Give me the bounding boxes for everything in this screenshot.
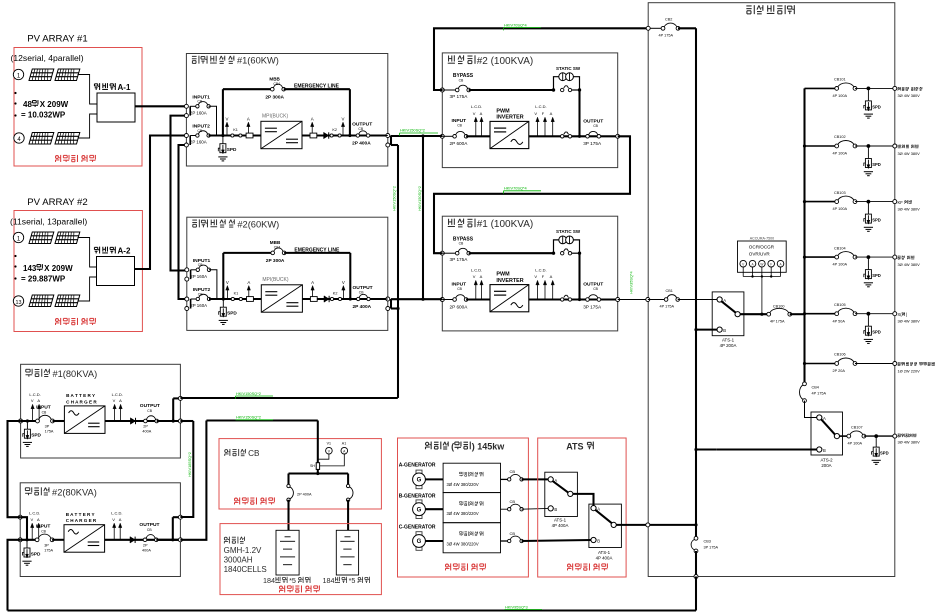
DC link wire to PWM inverter [466, 135, 490, 137]
static switch output drop to AC rail [578, 90, 580, 136]
svg-text:#2 (100KVA): #2 (100KVA) [477, 56, 534, 67]
battery branch bus [289, 472, 349, 474]
svg-text:2P 400A: 2P 400A [353, 304, 372, 310]
svg-text:(12serial, 4parallel): (12serial, 4parallel) [11, 53, 84, 63]
svg-text:V: V [342, 280, 345, 285]
wire CB-B to ATS-a B [522, 507, 549, 510]
wire charger#2 input down to bottom AC wire [8, 540, 21, 611]
module count marker 1 [13, 69, 23, 79]
svg-text:C H A R G E R: C H A R G E R [66, 399, 97, 404]
svg-text:A: A [311, 117, 314, 122]
svg-text:4P 175A: 4P 175A [660, 305, 675, 309]
charger SPD [26, 419, 29, 422]
ATS-2 contact A [817, 415, 822, 420]
shunt + A meter arrow (output side) [310, 297, 317, 302]
distribution sub bus x=804.5 [803, 88, 805, 383]
svg-text:HKIV95SQ*3: HKIV95SQ*3 [505, 605, 528, 610]
ATS panel enclosure (ATS 반) [538, 438, 626, 577]
svg-text:1Ø 2W 220V: 1Ø 2W 220V [898, 368, 921, 373]
wire CB-C to ATS-b B [522, 540, 591, 541]
svg-text:HKIV150SQ*2: HKIV150SQ*2 [236, 415, 261, 420]
svg-text:*5: *5 [289, 576, 296, 585]
BYPASS input terminal [440, 88, 444, 92]
wire to charger module [52, 539, 64, 541]
battery charger box 충전기#2(80KVA) [20, 483, 180, 577]
OUTPUT terminals [386, 134, 390, 138]
svg-text:MBB: MBB [270, 240, 281, 245]
ATS-1 contact B [717, 327, 722, 332]
wire charger#1 input tie down to charger#2 upper tie [8, 421, 21, 517]
output contactor contacts [561, 298, 564, 301]
svg-text:PV ARRAY #2: PV ARRAY #2 [27, 197, 87, 208]
PV module icon row2-a [29, 295, 54, 307]
battery bank enclosure (축전지) [220, 524, 381, 595]
svg-text:CB102: CB102 [834, 135, 846, 139]
svg-text:K1: K1 [234, 291, 239, 295]
V meter arrow (output) [342, 287, 344, 299]
power conditioner box 전력조절기 #1(60KW) [186, 54, 387, 167]
SPD on feeder CB102 [867, 144, 871, 148]
ATS-2 common contact [834, 434, 839, 439]
svg-text:3Ø 4W 380V: 3Ø 4W 380V [898, 206, 921, 211]
wire charger#1 upper output (DC+) to riser x=398 [180, 397, 397, 399]
svg-text:CB: CB [457, 287, 462, 291]
svg-text:V: V [473, 274, 476, 279]
PV ARRAY #2 enclosure [14, 211, 142, 332]
svg-text:2P 20A: 2P 20A [833, 369, 846, 373]
svg-text:CB106: CB106 [834, 353, 846, 357]
svg-text:V: V [113, 398, 116, 403]
svg-text:4P 100A: 4P 100A [833, 263, 848, 267]
svg-text:B-GENERATOR: B-GENERATOR [399, 493, 436, 499]
AC rail from PWM box [529, 135, 618, 137]
svg-text:SPD: SPD [872, 218, 881, 223]
svg-text:SPD: SPD [872, 273, 881, 278]
svg-text:ACCURA-7500: ACCURA-7500 [750, 237, 774, 241]
OUTPUT breaker 2P 400A [146, 535, 155, 539]
PV module icon row2-a [29, 133, 54, 145]
battery string 2 symbol [336, 530, 358, 575]
svg-text:3Ø 4W 380V: 3Ø 4W 380V [898, 440, 921, 445]
svg-text:SPD: SPD [880, 451, 889, 456]
terminal circle at board bottom edge [694, 575, 698, 579]
module count marker 4 [14, 133, 24, 143]
control box label [459, 531, 461, 533]
INPUT breaker 2P 600A [442, 135, 454, 137]
shunt + A meter arrow (output side) [310, 133, 317, 138]
svg-text:1840CELLS: 1840CELLS [224, 565, 267, 574]
svg-text:V: V [473, 111, 476, 116]
INPUT2 terminals and 2P breaker [184, 134, 188, 138]
rail from converter to output [302, 134, 388, 136]
charger input terminal [18, 538, 22, 542]
svg-text:L.C.D.: L.C.D. [29, 392, 40, 397]
svg-text:SPD: SPD [227, 311, 237, 316]
svg-text:CB1: CB1 [666, 289, 673, 293]
svg-text:V: V [342, 117, 345, 122]
svg-text:CB: CB [459, 242, 464, 246]
svg-text:SPD: SPD [31, 552, 41, 557]
svg-text:G: G [417, 478, 422, 484]
AC rail from PWM box [529, 298, 618, 300]
OUTPUT breaker 2P 400A [359, 294, 367, 297]
CB2 breaker 4P 175A [646, 26, 650, 30]
charger AC/DC converter box [64, 525, 105, 553]
SPD on feeder CB104 [867, 255, 871, 259]
wire inverter#2 bypass up to CB2 (AC grid tie) [434, 28, 648, 90]
OUTPUT terminal [616, 298, 620, 302]
svg-text:HKIV150SQ*2: HKIV150SQ*2 [417, 186, 422, 211]
svg-text:B: B [823, 448, 826, 453]
svg-text:184: 184 [263, 576, 275, 585]
OUTPUT terminals [386, 297, 390, 301]
DC link wire to PWM inverter [466, 298, 490, 300]
A meter arrow [38, 406, 40, 421]
svg-text:4P 100A: 4P 100A [833, 152, 848, 156]
PWM inverter DC/AC box [490, 285, 529, 312]
SPD of conditioner [222, 136, 224, 144]
control box label [459, 471, 461, 473]
wire to charger module [53, 420, 65, 422]
bottom AC distribution wire [8, 609, 697, 611]
wire bus to ATS-2 B [696, 448, 717, 450]
CB1 breaker 4P 175A [646, 298, 650, 302]
wire CB1 to ATS-1 A [678, 299, 720, 301]
SPD on feeder CB103 [867, 200, 871, 204]
svg-text:A-GENERATOR: A-GENERATOR [399, 462, 436, 468]
generator CB row A [501, 478, 510, 480]
relay element circles [740, 260, 747, 267]
svg-text:3P 175A: 3P 175A [450, 257, 469, 262]
svg-text:HKIV150SQ*2: HKIV150SQ*2 [400, 128, 425, 133]
svg-text:L.C.D.: L.C.D. [535, 104, 546, 109]
A meter arrow [552, 119, 554, 137]
svg-text:V: V [534, 111, 537, 116]
svg-text:X 209W: X 209W [40, 100, 69, 109]
INPUT breaker 3P 175A [39, 415, 52, 420]
svg-text:A: A [247, 117, 250, 122]
svg-text:3Ø 4W 380/220V: 3Ø 4W 380/220V [447, 511, 479, 516]
charger AC/DC converter box [64, 406, 105, 434]
svg-text:CB: CB [147, 409, 152, 413]
A meter arrow [481, 282, 483, 300]
svg-text:V: V [112, 517, 115, 522]
excluded-scope label (본공사 제외) [56, 156, 59, 159]
feeder label CB101 [898, 87, 900, 89]
svg-text:MPI(BUCK): MPI(BUCK) [262, 114, 288, 120]
bus drop to bottom distribution wire [695, 577, 697, 611]
svg-text:KF: KF [898, 200, 904, 205]
feeder terminal CB104 [893, 255, 897, 259]
svg-text:4P 100A: 4P 100A [833, 94, 848, 98]
V meter arrow [537, 282, 539, 300]
svg-text:*5: *5 [349, 576, 356, 585]
svg-text:V: V [226, 117, 229, 122]
conditioner title [192, 219, 197, 221]
svg-text:#1(60KW): #1(60KW) [237, 56, 279, 66]
wire A-2 output to conditioner#1 INPUT2 [135, 136, 187, 270]
svg-text:3P 175A: 3P 175A [450, 94, 469, 99]
V meter arrow [113, 525, 115, 540]
power conditioner box 전력조절기 #2(60KW) [187, 217, 388, 330]
inverter title [448, 219, 450, 225]
shunt SH [316, 463, 319, 470]
ATS-1 common contact [735, 312, 740, 317]
svg-text:V: V [31, 398, 34, 403]
feeder terminal CB102 [893, 144, 897, 148]
svg-text:#2(60KW): #2(60KW) [237, 219, 279, 229]
static switch symbol (thyristor pair) [559, 73, 567, 81]
svg-text:ATS-1: ATS-1 [598, 550, 611, 555]
battery CB title [225, 450, 228, 453]
PV module icon row1-b [55, 232, 80, 244]
svg-text:SPD: SPD [31, 433, 41, 438]
AC distribution board enclosure [648, 3, 895, 577]
emergency line drop to rail [349, 253, 351, 299]
svg-text:CB2: CB2 [665, 17, 672, 21]
wire left breaker to battery string 1 [287, 500, 289, 531]
svg-text:#1(80KVA): #1(80KVA) [52, 369, 97, 379]
svg-text:A: A [247, 280, 250, 285]
svg-text:A: A [119, 398, 122, 403]
svg-text:L.C.D.: L.C.D. [535, 267, 546, 272]
inverter box 인버터 #2 (100KVA) [442, 53, 617, 168]
charger input terminal [19, 419, 23, 423]
battery string 1 symbol [276, 530, 299, 575]
svg-text:#2(80KVA): #2(80KVA) [52, 487, 97, 497]
excluded-scope label (generator) [446, 564, 449, 567]
generator enclosure (발전기(디젤) 145kw) [398, 438, 529, 577]
svg-text:2P 160A: 2P 160A [190, 303, 207, 308]
svg-text:B: B [723, 328, 726, 333]
V meter arrow (output) [342, 124, 344, 136]
bypass wire to static switch [469, 252, 554, 254]
excluded-scope label (ATS panel) [568, 564, 571, 567]
wire bus to ATS-1 B [696, 329, 717, 331]
svg-text:HKIV35SQ*4: HKIV35SQ*4 [628, 270, 633, 294]
feeder row CB106 [805, 363, 837, 365]
feeder row CB103 [805, 201, 837, 203]
wire from module to output [105, 539, 181, 541]
F meter arrow [544, 282, 546, 300]
svg-text:L.C.D.: L.C.D. [29, 511, 40, 516]
module count marker 13 [13, 296, 23, 306]
SPD on CB107 feeder [874, 434, 878, 438]
junction box A-1 [97, 93, 135, 122]
wire charger#1 lower output stub [180, 420, 193, 422]
wire charger#2 outputs to battery shunt [206, 419, 317, 421]
feeder row CB104 [805, 256, 837, 258]
svg-text:) 145kw: ) 145kw [472, 441, 506, 451]
svg-text:4P 400A: 4P 400A [596, 555, 613, 560]
wire PV row2 to junction box A-2 [78, 277, 97, 301]
svg-text:4P 200A: 4P 200A [720, 343, 737, 348]
svg-text:MBB: MBB [269, 77, 280, 82]
junction box A-2 label [94, 246, 97, 248]
ATS-a transfer switch box [545, 472, 578, 516]
blocking diode [324, 296, 329, 302]
ACCURA-7500 protection relay box [738, 241, 787, 272]
svg-text:2P 600A: 2P 600A [450, 141, 469, 146]
AC distribution board title [746, 5, 751, 7]
static switch output drop to AC rail [578, 253, 580, 299]
emergency line to MBB breaker [223, 88, 272, 90]
wire from module to output [105, 420, 180, 422]
svg-text:CB4: CB4 [812, 386, 819, 390]
charger title [26, 368, 30, 370]
V meter arrow [475, 282, 477, 300]
svg-text:B: B [597, 539, 600, 544]
svg-text:CB: CB [593, 124, 598, 128]
A meter arrow [38, 525, 40, 540]
OUTPUT breaker 2P 400A [146, 416, 155, 420]
charger title [25, 487, 29, 489]
svg-text:SH: SH [310, 464, 315, 468]
relay CT wiring bus [743, 276, 780, 278]
output junction and riser to upper output terminal [172, 419, 175, 422]
generator CB row C [501, 540, 510, 542]
blocking diode [130, 418, 135, 424]
junction box A-2 [97, 257, 135, 286]
PWM inverter DC/AC box [490, 121, 529, 148]
ellipsis dots [14, 255, 16, 257]
wire INPUT1 to DC rail [209, 106, 217, 135]
wire CB100 to sub bus [790, 313, 805, 315]
feeder label CB102 [897, 145, 899, 148]
wire conditioner#1 IN1 lower to conditioner#2 INPUT1 [171, 116, 187, 271]
A meter arrow [119, 525, 121, 540]
blocking diode [130, 537, 135, 543]
svg-text:4P 400A: 4P 400A [552, 523, 569, 528]
emergency line to MBB breaker [223, 252, 272, 254]
wire CB107 to terminal [864, 435, 895, 437]
blocking diode [324, 132, 329, 138]
ATS-a common [568, 491, 573, 496]
inverter title [448, 55, 450, 61]
A1 sensing wire [320, 454, 344, 466]
module count marker 1 [13, 232, 23, 242]
excluded-scope label [280, 586, 283, 589]
svg-text:L.C.D.: L.C.D. [471, 104, 482, 109]
rail from converter to output [302, 298, 387, 300]
ATS-b transfer switch box [589, 504, 622, 547]
svg-text:CB107: CB107 [851, 426, 863, 430]
svg-text:2P 160A: 2P 160A [190, 111, 207, 116]
A meter arrow [552, 282, 554, 300]
riser charger#2 lower output up to battery wire [180, 421, 206, 540]
INPUT breaker 2P 600A [442, 299, 454, 301]
svg-text:2P 300A: 2P 300A [265, 95, 284, 101]
battery CB enclosure (축전지CB) [219, 439, 381, 509]
svg-text:4P 175A: 4P 175A [812, 392, 827, 396]
svg-text:A-1: A-1 [118, 83, 131, 92]
conditioner title [192, 55, 197, 57]
DC negative riser x=398 conditioner lower outputs to charger bus [397, 145, 399, 398]
feeder terminal CB101 [893, 86, 897, 90]
svg-text:4P 100A: 4P 100A [833, 207, 848, 211]
INPUT1 terminals and 2P breaker [184, 104, 188, 108]
svg-text:CB101: CB101 [834, 78, 846, 82]
svg-text:3Ø 4W 380V: 3Ø 4W 380V [898, 262, 921, 267]
svg-text:3P: 3P [44, 544, 49, 548]
excluded-scope label [235, 498, 238, 501]
svg-text:CB: CB [510, 531, 516, 536]
svg-text:A: A [550, 274, 553, 279]
MPI(BUCK) DC/DC converter box [261, 121, 302, 148]
inverter box 인버터 #1 (100KVA) [442, 216, 617, 331]
bus continues to board bottom [695, 551, 697, 577]
emergency line riser [222, 253, 224, 299]
svg-text:4P 175A: 4P 175A [659, 33, 674, 37]
svg-text:(11serial, 13parallel): (11serial, 13parallel) [10, 217, 87, 227]
OUTPUT breaker 3P 175A [588, 295, 597, 299]
wire ATS-b common out to CB3 junction on bus [616, 524, 696, 526]
wire ATS-2 common to CB107 [840, 435, 849, 437]
svg-text:SPD: SPD [227, 147, 237, 152]
ATS-b contact A [591, 506, 596, 511]
feeder terminal CB106 [893, 362, 897, 366]
MBB breaker 2P 300A [274, 248, 283, 252]
PV module icon row1-b [55, 69, 80, 81]
svg-text:2P 160A: 2P 160A [190, 274, 207, 279]
svg-text:3P 175A: 3P 175A [704, 545, 719, 549]
svg-text:B: B [554, 507, 557, 512]
bypass contactor contacts [561, 252, 564, 255]
feeder row CB105 [805, 313, 837, 315]
svg-text:2P 160A: 2P 160A [190, 140, 207, 145]
svg-text:CB: CB [457, 124, 462, 128]
ATS-b blade [595, 510, 611, 523]
BYPASS breaker 3P 175A [442, 89, 457, 91]
svg-text:13: 13 [16, 300, 22, 306]
CB4 breaker 4P 175A (sub bus to ATS-2) [800, 385, 804, 400]
shunt + A meter arrow [246, 133, 253, 138]
generator CB row B [501, 508, 510, 510]
feeder terminal CB105 [893, 312, 897, 316]
V1 sensing wire [318, 454, 329, 459]
svg-text:175A: 175A [44, 549, 53, 553]
SPD on feeder CB101 [867, 87, 871, 91]
svg-text:= 10.032WP: = 10.032WP [21, 111, 66, 120]
svg-text:A: A [311, 280, 314, 285]
svg-text:A: A [37, 398, 40, 403]
INPUT terminal [440, 298, 444, 302]
svg-text:V: V [31, 517, 34, 522]
wire PV row1 to junction box A-1 [78, 75, 98, 105]
emergency line drop to rail [349, 89, 351, 135]
ellipsis dots [14, 92, 16, 94]
V meter arrow [32, 406, 34, 421]
svg-text:2P: 2P [143, 425, 148, 429]
wire A-GENERATOR to control box [425, 478, 443, 480]
svg-text:X 209W: X 209W [44, 264, 73, 273]
BYPASS input terminal [440, 251, 444, 255]
svg-text:3Ø 4W 380/220V: 3Ø 4W 380/220V [447, 541, 479, 546]
wire inverter#2 output down to inverter#1 bypass [434, 136, 630, 253]
V meter arrow [114, 406, 116, 421]
ATS-a blade [553, 481, 569, 493]
wire CB-A to ATS-a A [522, 478, 549, 480]
wire C-GENERATOR to control box [425, 540, 443, 542]
static switch symbol (thyristor pair) [559, 236, 567, 244]
bypass contactor contacts [561, 88, 564, 91]
svg-text:G: G [417, 507, 422, 513]
svg-text:C-GENERATOR: C-GENERATOR [399, 525, 436, 531]
svg-text:HKIV150SQ*2: HKIV150SQ*2 [392, 186, 397, 211]
svg-text:3P 175A: 3P 175A [583, 304, 602, 309]
svg-text:PWM: PWM [496, 108, 510, 114]
PV module icon row1-a [29, 69, 54, 81]
